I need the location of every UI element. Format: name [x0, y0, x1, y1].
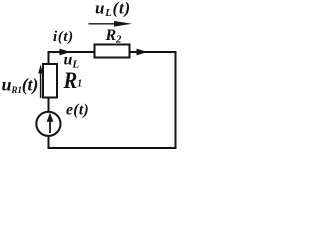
svg-text:R1: R1: [63, 67, 83, 94]
voltage source internal arrow: [47, 113, 54, 133]
svg-text:i(t): i(t): [53, 29, 74, 45]
resistor R1: [43, 64, 57, 98]
svg-text:uL(t): uL(t): [95, 0, 131, 19]
wire R1 bottom to e(t) source top: [48, 97, 50, 113]
arrowhead after R2 on top wire: [137, 49, 148, 56]
current i(t) arrowhead on top wire: [60, 49, 71, 56]
resistor R2: [95, 45, 130, 58]
voltage arrow uL(t) above R2: [89, 21, 133, 27]
voltage source e(t): [36, 112, 60, 136]
svg-text:e(t): e(t): [66, 102, 89, 119]
wire top-left segment (R1 top to top-left corner to R2 left): [49, 52, 95, 65]
svg-text:uR1(t): uR1(t): [2, 75, 39, 97]
wire top-right / right side / bottom (R2 right to corner, down, along bottom to e(t) source): [49, 52, 176, 148]
svg-text:R2: R2: [105, 27, 123, 46]
voltage arrow uR1 beside R1: [38, 65, 43, 99]
